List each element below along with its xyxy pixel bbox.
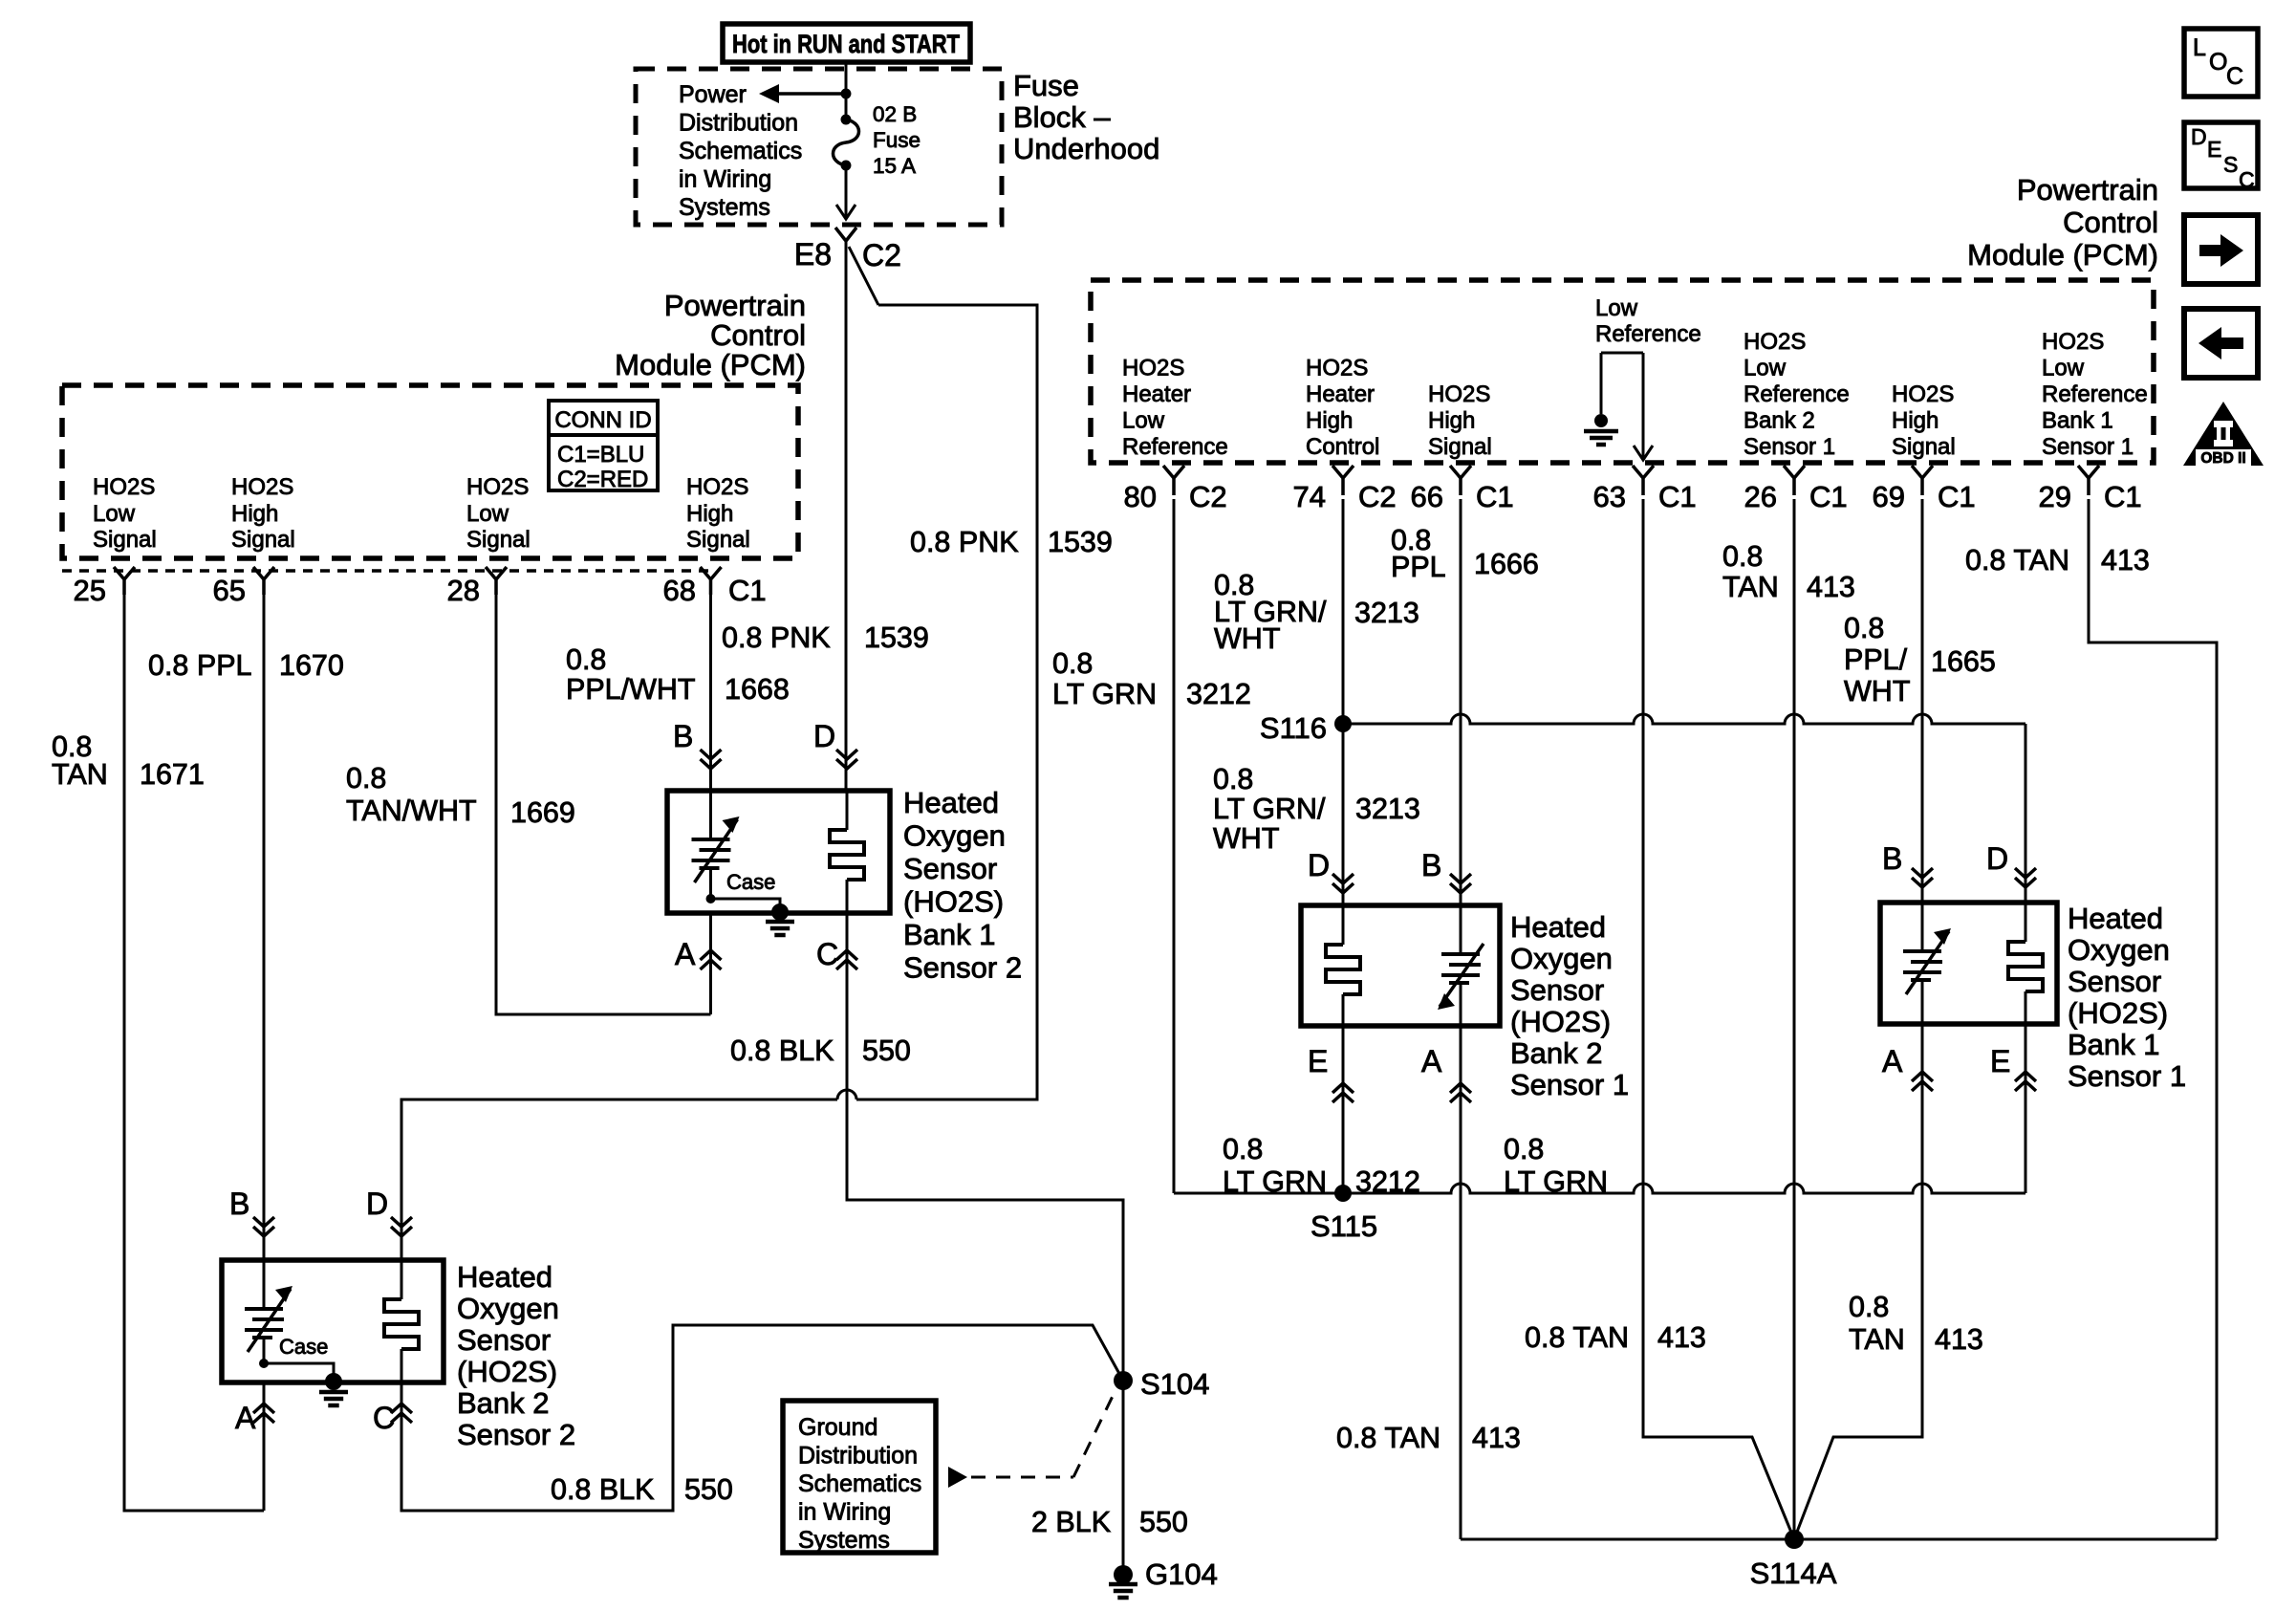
svg-text:A: A: [675, 937, 696, 971]
svg-text:High: High: [1306, 408, 1353, 434]
svg-text:63: 63: [1593, 480, 1626, 513]
svg-text:C1=BLU: C1=BLU: [557, 442, 644, 468]
svg-text:Signal: Signal: [1892, 434, 1956, 460]
svg-text:69: 69: [1873, 480, 1905, 513]
svg-text:B: B: [1421, 848, 1441, 882]
svg-text:Ground: Ground: [798, 1414, 877, 1441]
svg-text:C2: C2: [862, 238, 901, 272]
svg-text:413: 413: [1472, 1422, 1521, 1454]
svg-text:1539: 1539: [1048, 526, 1113, 558]
svg-text:HO2S: HO2S: [1428, 381, 1490, 407]
svg-text:HO2S: HO2S: [1122, 356, 1184, 381]
svg-text:(HO2S): (HO2S): [903, 885, 1004, 919]
svg-text:HO2S: HO2S: [1892, 381, 1954, 407]
svg-text:Reference: Reference: [1595, 321, 1701, 347]
svg-text:TAN: TAN: [1849, 1323, 1905, 1356]
svg-text:Bank 2: Bank 2: [1510, 1036, 1603, 1070]
svg-text:C: C: [816, 937, 838, 971]
svg-text:Sensor 1: Sensor 1: [2068, 1059, 2186, 1093]
svg-text:B: B: [1882, 841, 1902, 876]
svg-text:0.8 PNK: 0.8 PNK: [722, 621, 831, 654]
svg-text:1668: 1668: [725, 673, 790, 706]
svg-text:TAN: TAN: [1722, 571, 1779, 603]
svg-text:66: 66: [1411, 480, 1443, 513]
svg-text:550: 550: [1139, 1506, 1188, 1538]
svg-text:Hot in RUN and START: Hot in RUN and START: [732, 30, 960, 58]
svg-text:15 A: 15 A: [873, 154, 916, 178]
svg-text:0.8: 0.8: [1722, 540, 1763, 573]
svg-text:C: C: [373, 1401, 395, 1435]
svg-text:0.8 PPL: 0.8 PPL: [148, 649, 252, 682]
svg-text:0.8 BLK: 0.8 BLK: [551, 1473, 655, 1506]
svg-text:Sensor: Sensor: [457, 1323, 551, 1357]
svg-text:Fuse: Fuse: [873, 128, 921, 152]
svg-text:0.8: 0.8: [1213, 763, 1253, 795]
svg-text:0.8 BLK: 0.8 BLK: [730, 1034, 834, 1067]
svg-text:C2=RED: C2=RED: [557, 467, 648, 492]
svg-text:PPL/: PPL/: [1844, 643, 1908, 676]
svg-text:Sensor 1: Sensor 1: [1510, 1068, 1629, 1101]
svg-text:Low: Low: [1744, 356, 1787, 381]
svg-text:Heated: Heated: [457, 1260, 552, 1294]
svg-text:0.8: 0.8: [1052, 647, 1093, 680]
svg-text:in Wiring: in Wiring: [798, 1499, 891, 1526]
svg-text:Low: Low: [2042, 356, 2085, 381]
svg-text:High: High: [686, 501, 733, 527]
svg-text:S: S: [2223, 152, 2238, 177]
svg-text:Module (PCM): Module (PCM): [1967, 238, 2158, 272]
svg-text:D: D: [1308, 848, 1330, 882]
svg-text:in Wiring: in Wiring: [679, 166, 771, 193]
svg-text:LT GRN: LT GRN: [1504, 1165, 1608, 1198]
svg-text:26: 26: [1744, 480, 1777, 513]
svg-text:D: D: [366, 1186, 388, 1221]
svg-text:1539: 1539: [864, 621, 929, 654]
svg-text:Bank 1: Bank 1: [2042, 408, 2113, 434]
svg-text:Heated: Heated: [2068, 902, 2163, 935]
svg-text:C1: C1: [1658, 480, 1697, 513]
svg-text:Bank 1: Bank 1: [2068, 1028, 2160, 1061]
svg-text:A: A: [1421, 1044, 1442, 1078]
svg-text:PPL/WHT: PPL/WHT: [566, 673, 696, 706]
svg-text:High: High: [231, 501, 278, 527]
svg-text:A: A: [1882, 1044, 1903, 1078]
svg-text:C1: C1: [1938, 480, 1976, 513]
svg-text:Oxygen: Oxygen: [457, 1292, 559, 1325]
svg-text:LT GRN: LT GRN: [1052, 678, 1157, 710]
svg-text:HO2S: HO2S: [1744, 329, 1806, 355]
svg-text:E: E: [1990, 1044, 2010, 1078]
svg-text:O: O: [2209, 49, 2227, 76]
svg-text:Heated: Heated: [1510, 910, 1606, 944]
svg-text:S115: S115: [1310, 1209, 1377, 1243]
svg-text:Sensor: Sensor: [2068, 965, 2161, 998]
svg-text:Case: Case: [279, 1335, 328, 1359]
svg-text:Heater: Heater: [1122, 381, 1191, 407]
svg-text:TAN/WHT: TAN/WHT: [346, 795, 477, 827]
svg-text:1666: 1666: [1474, 548, 1539, 580]
svg-text:Fuse: Fuse: [1013, 69, 1079, 102]
svg-text:74: 74: [1293, 480, 1326, 513]
svg-text:1669: 1669: [510, 796, 575, 829]
svg-text:Low: Low: [1122, 408, 1165, 434]
svg-text:C: C: [2239, 167, 2255, 192]
svg-text:Bank 2: Bank 2: [457, 1386, 550, 1420]
svg-text:29: 29: [2039, 480, 2071, 513]
svg-text:550: 550: [862, 1034, 911, 1067]
svg-text:WHT: WHT: [1844, 675, 1910, 708]
svg-text:Signal: Signal: [686, 527, 750, 553]
svg-text:(HO2S): (HO2S): [1510, 1005, 1611, 1038]
svg-text:G104: G104: [1145, 1557, 1218, 1591]
svg-text:D: D: [1986, 841, 2008, 876]
svg-text:Low: Low: [93, 501, 136, 527]
svg-text:Oxygen: Oxygen: [2068, 933, 2170, 967]
svg-text:Control: Control: [1306, 434, 1379, 460]
svg-text:0.8 PNK: 0.8 PNK: [910, 526, 1019, 558]
svg-text:Systems: Systems: [798, 1527, 890, 1554]
svg-text:0.8: 0.8: [566, 643, 606, 676]
svg-text:Control: Control: [2063, 206, 2158, 239]
svg-text:Heated: Heated: [903, 786, 999, 819]
svg-text:LT GRN/: LT GRN/: [1213, 793, 1326, 825]
svg-text:Signal: Signal: [93, 527, 157, 553]
svg-text:1665: 1665: [1931, 645, 1996, 678]
svg-text:HO2S: HO2S: [231, 474, 293, 500]
svg-text:0.8: 0.8: [1223, 1133, 1263, 1165]
svg-text:Low: Low: [1595, 295, 1638, 321]
svg-text:1670: 1670: [279, 649, 344, 682]
svg-text:(HO2S): (HO2S): [2068, 996, 2168, 1030]
svg-text:Schematics: Schematics: [679, 138, 802, 164]
svg-text:0.8: 0.8: [1849, 1291, 1889, 1323]
svg-text:Heater: Heater: [1306, 381, 1375, 407]
svg-text:0.8: 0.8: [1504, 1133, 1544, 1165]
svg-text:D: D: [813, 719, 835, 753]
svg-text:(HO2S): (HO2S): [457, 1355, 557, 1388]
svg-text:Low: Low: [466, 501, 509, 527]
svg-text:Reference: Reference: [1744, 381, 1850, 407]
svg-text:S114A: S114A: [1750, 1557, 1837, 1590]
svg-text:Sensor 2: Sensor 2: [903, 951, 1022, 985]
svg-text:S116: S116: [1260, 711, 1327, 745]
svg-text:WHT: WHT: [1214, 622, 1280, 655]
svg-text:Underhood: Underhood: [1013, 132, 1159, 165]
svg-text:25: 25: [74, 574, 106, 607]
svg-text:OBD II: OBD II: [2200, 450, 2245, 467]
svg-text:65: 65: [213, 574, 246, 607]
svg-text:B: B: [229, 1186, 249, 1221]
svg-text:HO2S: HO2S: [2042, 329, 2104, 355]
svg-text:Oxygen: Oxygen: [903, 819, 1006, 853]
svg-text:High: High: [1892, 408, 1939, 434]
svg-text:Block –: Block –: [1013, 100, 1111, 134]
svg-text:C2: C2: [1189, 480, 1227, 513]
svg-text:Powertrain: Powertrain: [664, 289, 806, 322]
svg-text:Sensor: Sensor: [903, 852, 997, 885]
svg-text:68: 68: [663, 574, 696, 607]
svg-text:Case: Case: [726, 870, 775, 894]
svg-text:C: C: [2226, 63, 2243, 90]
svg-text:413: 413: [1807, 571, 1855, 603]
svg-text:Control: Control: [710, 318, 806, 352]
svg-text:Reference: Reference: [1122, 434, 1228, 460]
svg-text:B: B: [673, 719, 693, 753]
svg-text:Systems: Systems: [679, 194, 770, 221]
svg-text:HO2S: HO2S: [1306, 356, 1368, 381]
svg-text:Signal: Signal: [1428, 434, 1492, 460]
svg-text:E: E: [1308, 1044, 1328, 1078]
svg-text:413: 413: [2101, 544, 2150, 577]
svg-text:2 BLK: 2 BLK: [1031, 1506, 1111, 1538]
svg-text:0.8: 0.8: [346, 762, 386, 795]
svg-text:PPL: PPL: [1391, 551, 1446, 583]
svg-text:HO2S: HO2S: [466, 474, 529, 500]
svg-text:HO2S: HO2S: [93, 474, 155, 500]
svg-text:Powertrain: Powertrain: [2017, 173, 2158, 207]
svg-text:28: 28: [447, 574, 480, 607]
svg-text:413: 413: [1935, 1323, 1983, 1356]
svg-text:550: 550: [684, 1473, 733, 1506]
svg-text:0.8 TAN: 0.8 TAN: [1525, 1321, 1629, 1354]
svg-text:C1: C1: [1476, 480, 1514, 513]
svg-text:C1: C1: [2104, 480, 2142, 513]
svg-text:1671: 1671: [140, 758, 205, 791]
svg-text:A: A: [235, 1401, 256, 1435]
svg-text:Sensor 1: Sensor 1: [2042, 434, 2134, 460]
svg-text:Bank 2: Bank 2: [1744, 408, 1815, 434]
svg-text:CONN ID: CONN ID: [554, 407, 651, 433]
svg-text:LT GRN: LT GRN: [1223, 1165, 1327, 1198]
svg-text:E: E: [2207, 137, 2221, 162]
svg-text:3212: 3212: [1355, 1165, 1420, 1198]
svg-text:Distribution: Distribution: [798, 1443, 918, 1469]
svg-text:L: L: [2193, 34, 2206, 61]
svg-text:3213: 3213: [1354, 597, 1419, 629]
svg-text:3212: 3212: [1186, 678, 1251, 710]
svg-text:Power: Power: [679, 81, 747, 108]
svg-text:WHT: WHT: [1213, 822, 1279, 855]
svg-text:80: 80: [1124, 480, 1157, 513]
svg-text:0.8 TAN: 0.8 TAN: [1965, 544, 2069, 577]
svg-text:Oxygen: Oxygen: [1510, 942, 1613, 975]
svg-text:Reference: Reference: [2042, 381, 2148, 407]
svg-text:High: High: [1428, 408, 1475, 434]
svg-text:Sensor 1: Sensor 1: [1744, 434, 1835, 460]
svg-text:D: D: [2191, 124, 2207, 149]
svg-text:0.8: 0.8: [1844, 612, 1884, 644]
svg-text:3213: 3213: [1355, 793, 1420, 825]
svg-text:Sensor 2: Sensor 2: [457, 1418, 575, 1451]
svg-text:Sensor: Sensor: [1510, 973, 1604, 1007]
svg-text:E8: E8: [794, 237, 832, 272]
svg-text:Signal: Signal: [466, 527, 531, 553]
svg-text:C2: C2: [1358, 480, 1397, 513]
svg-text:Bank 1: Bank 1: [903, 918, 996, 951]
svg-text:0.8 TAN: 0.8 TAN: [1336, 1422, 1440, 1454]
svg-text:HO2S: HO2S: [686, 474, 748, 500]
svg-text:TAN: TAN: [52, 758, 108, 791]
svg-text:Distribution: Distribution: [679, 110, 798, 137]
svg-text:02 B: 02 B: [873, 102, 917, 126]
svg-text:413: 413: [1657, 1321, 1706, 1354]
svg-text:S104: S104: [1140, 1367, 1209, 1401]
svg-text:Module (PCM): Module (PCM): [615, 348, 806, 381]
svg-text:Schematics: Schematics: [798, 1470, 921, 1497]
svg-text:C1: C1: [728, 574, 767, 607]
svg-text:C1: C1: [1809, 480, 1848, 513]
svg-text:Signal: Signal: [231, 527, 295, 553]
